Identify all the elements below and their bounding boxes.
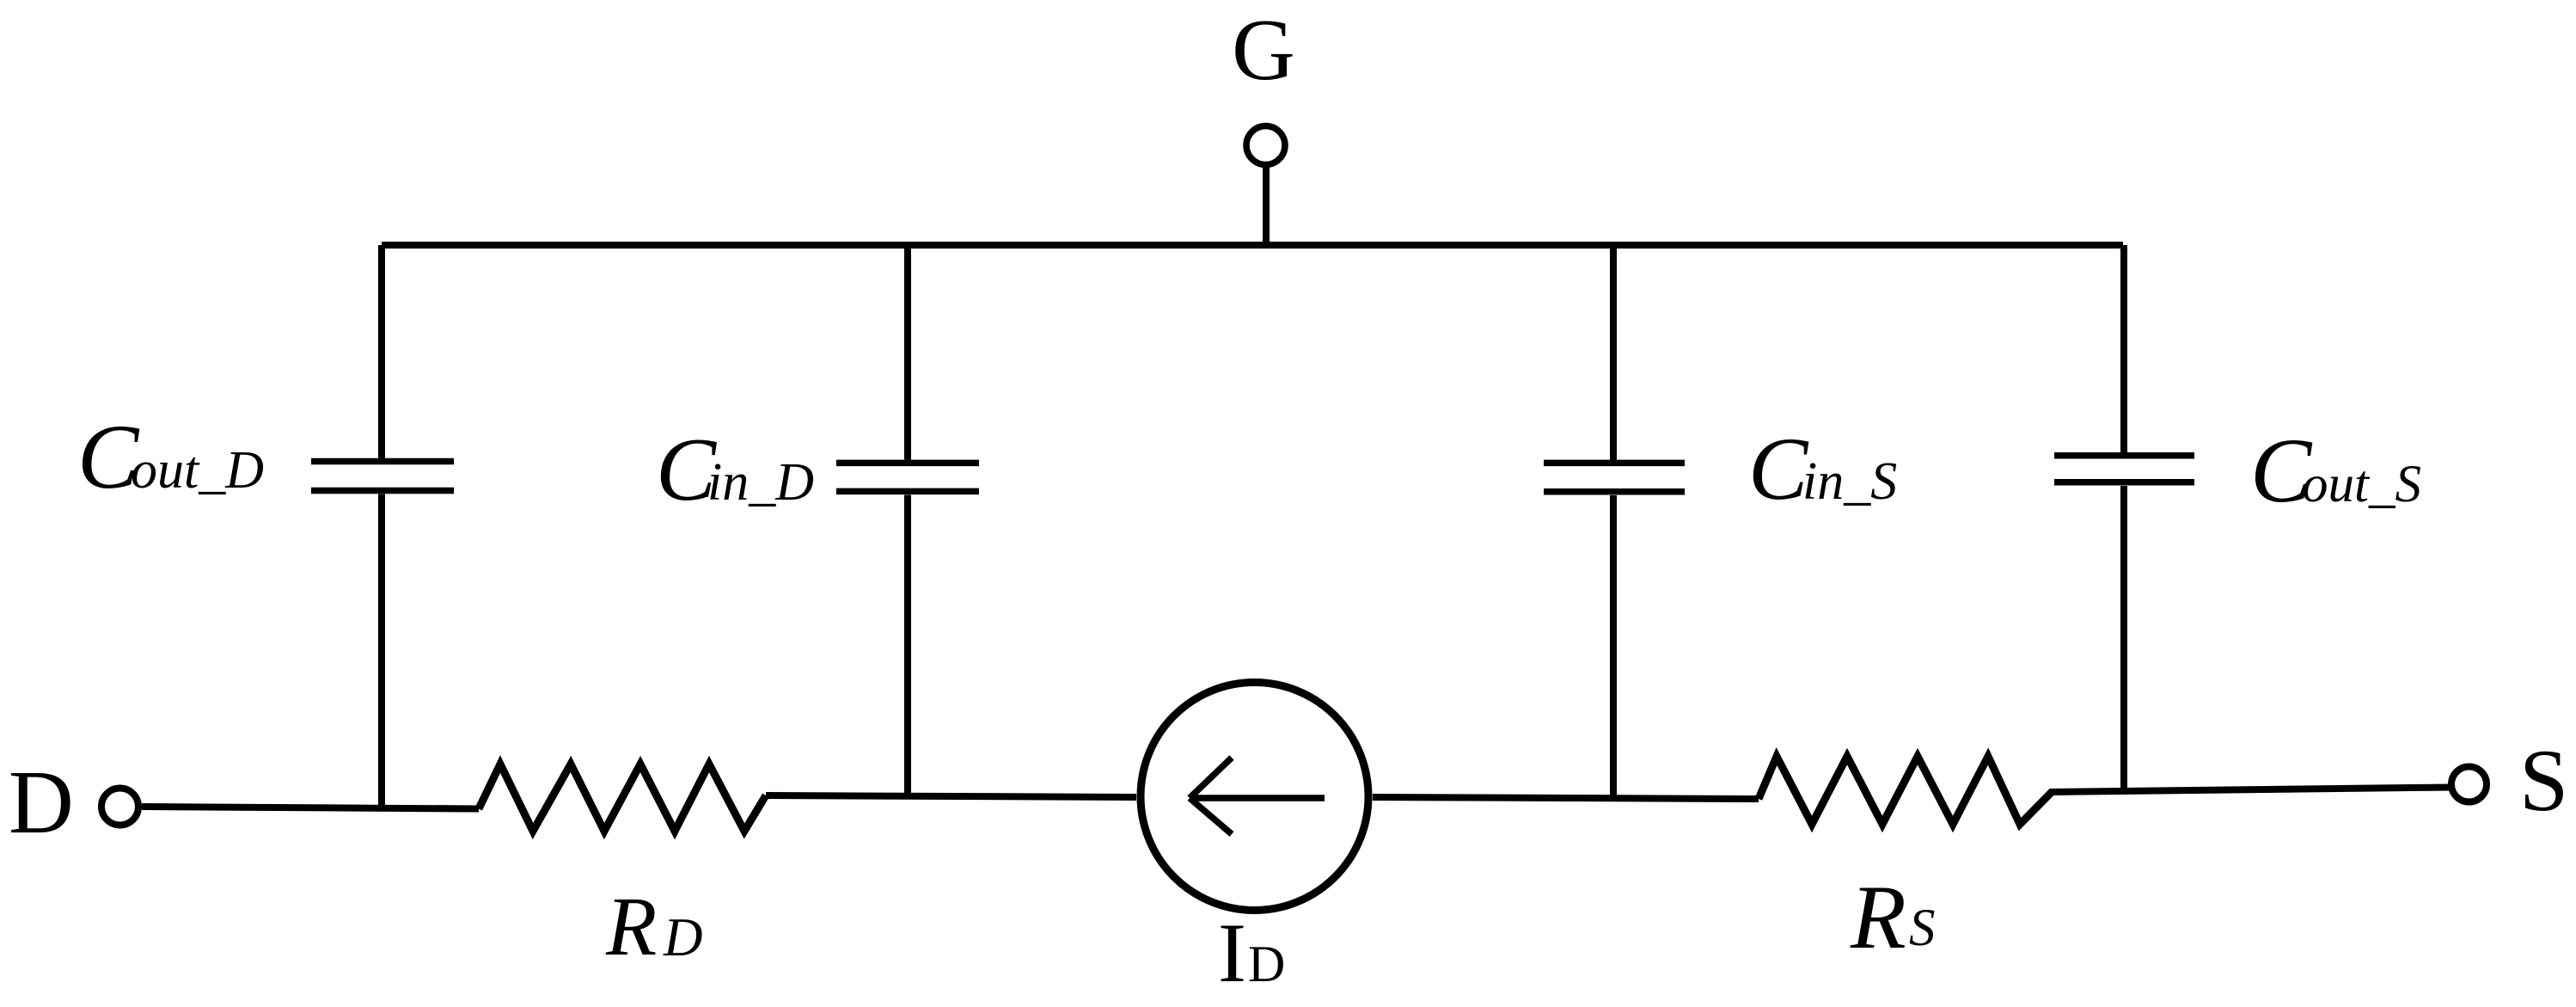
svg-text:S: S bbox=[2519, 732, 2568, 830]
wire R_D to I_D bbox=[766, 795, 1136, 797]
label C_out_S bbox=[2250, 421, 2421, 522]
label R_S bbox=[1850, 867, 1936, 967]
label R_D bbox=[605, 881, 703, 973]
terminal S circle bbox=[2451, 767, 2487, 802]
label C_out_D bbox=[77, 407, 264, 508]
node D label bbox=[9, 752, 74, 852]
label C_in_D bbox=[656, 419, 814, 519]
label I_D bbox=[1218, 906, 1285, 1000]
wire column 4 upper bbox=[2120, 245, 2127, 452]
wire column 2 upper bbox=[904, 245, 911, 460]
svg-text:D: D bbox=[9, 752, 74, 852]
current source I_D arrow bbox=[1192, 795, 1325, 801]
current source I_D circle bbox=[1141, 683, 1368, 911]
node G label bbox=[1232, 2, 1295, 99]
svg-text:S: S bbox=[1909, 900, 1936, 957]
wire D to R_D bbox=[142, 807, 479, 809]
wire column 1 lower bbox=[378, 494, 385, 809]
wire top gate bus bbox=[382, 242, 2123, 249]
capacitor C_out_S bbox=[2054, 452, 2194, 459]
wire column 2 lower bbox=[904, 495, 911, 798]
svg-text:in_D: in_D bbox=[707, 453, 814, 512]
wire column 3 lower bbox=[1610, 495, 1617, 799]
svg-text:D: D bbox=[663, 907, 703, 967]
wire I_D to R_S bbox=[1373, 797, 1759, 799]
svg-text:R: R bbox=[605, 881, 657, 973]
resistor R_D bbox=[479, 764, 766, 832]
wire R_S to S bbox=[2049, 788, 2451, 793]
svg-text:C: C bbox=[1748, 420, 1809, 519]
svg-text:G: G bbox=[1232, 2, 1295, 99]
capacitor C_in_S bbox=[1544, 460, 1685, 467]
svg-text:D: D bbox=[1248, 936, 1285, 992]
svg-text:out_D: out_D bbox=[131, 441, 264, 500]
svg-text:R: R bbox=[1850, 867, 1906, 967]
svg-text:out_S: out_S bbox=[2302, 456, 2421, 513]
wire column 1 upper bbox=[378, 245, 385, 458]
svg-text:in_S: in_S bbox=[1802, 452, 1897, 511]
wire column 4 lower bbox=[2120, 486, 2127, 789]
capacitor C_in_D bbox=[836, 460, 979, 467]
node S label bbox=[2519, 732, 2568, 830]
svg-text:I: I bbox=[1218, 906, 1246, 1000]
resistor R_S bbox=[1759, 757, 2052, 825]
wire column 3 upper bbox=[1610, 245, 1617, 460]
wire G stem bbox=[1263, 166, 1270, 245]
capacitor C_out_D bbox=[311, 458, 454, 465]
terminal G circle bbox=[1246, 126, 1285, 165]
label C_in_S bbox=[1748, 420, 1897, 519]
terminal D circle bbox=[101, 789, 138, 826]
